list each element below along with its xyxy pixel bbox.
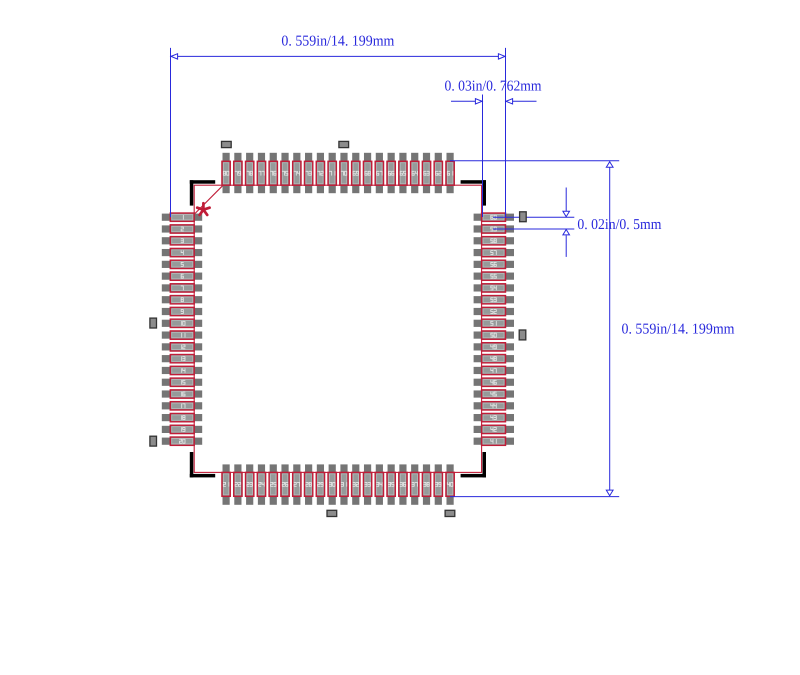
- pad 14: [162, 366, 202, 374]
- pad 43: [474, 413, 514, 421]
- pad 20: [162, 437, 202, 445]
- top dimension extension line left: [170, 48, 172, 217]
- pad 78: [246, 153, 254, 193]
- pad 13: [162, 355, 202, 363]
- silkscreen corner mark top-right: [461, 180, 486, 205]
- pad 7: [162, 284, 202, 292]
- pad 64: [411, 153, 419, 193]
- pin 70 marker: [339, 141, 349, 147]
- silkscreen corner mark bottom-left: [190, 452, 215, 477]
- pad 35: [387, 464, 395, 504]
- pad 11: [162, 331, 202, 339]
- right dimension extension line top: [450, 160, 619, 162]
- top dimension line: [171, 54, 506, 59]
- pad 27: [293, 464, 301, 504]
- pad 80: [222, 153, 230, 193]
- pad 74: [293, 153, 301, 193]
- pad 63: [422, 153, 430, 193]
- pin 1 asterisk: [197, 203, 209, 215]
- pad 49: [474, 343, 514, 351]
- pad 32: [352, 464, 360, 504]
- pad 34: [375, 464, 383, 504]
- pad 8: [162, 296, 202, 304]
- pad 36: [399, 464, 407, 504]
- pad 15: [162, 378, 202, 386]
- silkscreen corner mark top-left: [190, 180, 215, 205]
- top dimension extension line right: [505, 48, 507, 217]
- pad 73: [304, 153, 312, 193]
- pitch dimension arrows: [563, 188, 570, 257]
- svg-text:0. 559in/14. 199mm: 0. 559in/14. 199mm: [281, 34, 394, 50]
- pad length dimension arrows: [451, 99, 537, 104]
- pad length dimension extension line: [482, 95, 484, 218]
- pitch dimension line pin60: [493, 216, 574, 218]
- pad 42: [474, 425, 514, 433]
- svg-text:0. 02in/0. 5mm: 0. 02in/0. 5mm: [577, 217, 661, 233]
- pad 62: [434, 153, 442, 193]
- pad 53: [474, 296, 514, 304]
- pad 59: [474, 225, 514, 233]
- right dimension extension line bottom: [450, 496, 619, 498]
- pad 65: [399, 153, 407, 193]
- pad 69: [352, 153, 360, 193]
- pad 10: [162, 319, 202, 327]
- pad 60: [474, 213, 514, 221]
- pad 56: [474, 260, 514, 268]
- pad 68: [363, 153, 371, 193]
- pad 16: [162, 390, 202, 398]
- pad 41: [474, 437, 514, 445]
- pad 18: [162, 413, 202, 421]
- pad 66: [387, 153, 395, 193]
- pin 1 chamfer line: [195, 185, 224, 214]
- pad 29: [316, 464, 324, 504]
- pad 61: [446, 153, 454, 193]
- pad 76: [269, 153, 277, 193]
- package body outline: [194, 185, 481, 472]
- pad 47: [474, 366, 514, 374]
- pad 19: [162, 425, 202, 433]
- pad 2: [162, 225, 202, 233]
- pin 20 marker: [150, 436, 157, 446]
- pad 79: [234, 153, 242, 193]
- silkscreen corner mark bottom-right: [461, 452, 486, 477]
- pad 21: [222, 464, 230, 504]
- pad 3: [162, 237, 202, 245]
- pad 70: [340, 153, 348, 193]
- pad 28: [304, 464, 312, 504]
- pad 75: [281, 153, 289, 193]
- pad 5: [162, 260, 202, 268]
- pad 67: [375, 153, 383, 193]
- pad 72: [316, 153, 324, 193]
- pin 40 marker: [445, 510, 455, 516]
- pad 71: [328, 153, 336, 193]
- pad 33: [363, 464, 371, 504]
- pad 38: [422, 464, 430, 504]
- pad 58: [474, 237, 514, 245]
- pad 1: [162, 213, 202, 221]
- pin 80 marker: [222, 141, 232, 147]
- pad 30: [328, 464, 336, 504]
- pad 26: [281, 464, 289, 504]
- pin 60 marker: [520, 212, 527, 222]
- pin 30 marker: [327, 510, 337, 516]
- pad 17: [162, 402, 202, 410]
- pad 55: [474, 272, 514, 280]
- pad 40: [446, 464, 454, 504]
- pad 9: [162, 307, 202, 315]
- pitch dimension line pin59: [493, 228, 574, 230]
- pin 50 marker: [519, 330, 526, 340]
- pad 31: [340, 464, 348, 504]
- pad 46: [474, 378, 514, 386]
- pin 10 marker: [150, 318, 157, 328]
- pad 39: [434, 464, 442, 504]
- pad 50: [474, 331, 514, 339]
- pad 48: [474, 355, 514, 363]
- pad 77: [257, 153, 265, 193]
- svg-text:0. 03in/0. 762mm: 0. 03in/0. 762mm: [445, 79, 542, 95]
- pad 51: [474, 319, 514, 327]
- pad 37: [411, 464, 419, 504]
- pad 52: [474, 307, 514, 315]
- pad 57: [474, 248, 514, 256]
- pad 24: [257, 464, 265, 504]
- svg-text:0. 559in/14. 199mm: 0. 559in/14. 199mm: [622, 322, 735, 338]
- pad 45: [474, 390, 514, 398]
- pad 12: [162, 343, 202, 351]
- pad 23: [246, 464, 254, 504]
- pad 4: [162, 248, 202, 256]
- pad 22: [234, 464, 242, 504]
- right dimension line: [606, 162, 613, 496]
- pad 6: [162, 272, 202, 280]
- pad 54: [474, 284, 514, 292]
- pad 44: [474, 402, 514, 410]
- pad 25: [269, 464, 277, 504]
